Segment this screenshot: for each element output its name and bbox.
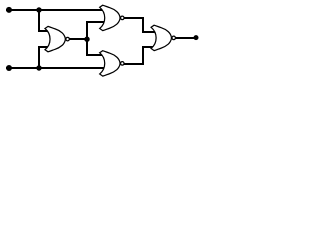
wire U1 lower input stub — [38, 46, 52, 48]
junction node B — [36, 65, 41, 70]
nor gate U4 (right) — [151, 25, 175, 50]
wire U4 output — [175, 37, 194, 39]
nor gate U1 (left) — [45, 26, 69, 51]
output terminal dot — [194, 35, 199, 40]
wire U4 upper input stub — [142, 31, 158, 33]
wire input B horizontal — [6, 67, 106, 69]
wire B branch vertical — [38, 47, 40, 68]
wire U4 lower input stub — [142, 46, 158, 48]
wire U1 output — [69, 38, 88, 40]
wire U2 lower input stub — [86, 21, 107, 23]
wire input A horizontal — [6, 9, 106, 11]
wire upper connector vertical — [142, 18, 144, 32]
wire mid vertical — [86, 22, 88, 55]
wire U3 upper input stub — [86, 54, 106, 56]
input terminal B dot — [6, 65, 12, 71]
nor gate U3 (bottom) — [100, 51, 124, 76]
junction node A — [36, 7, 41, 12]
wire U3 output — [124, 63, 144, 65]
input terminal A dot — [6, 7, 12, 13]
wire lower connector vertical — [142, 46, 144, 64]
wire U2 output — [124, 17, 144, 19]
nor gate U2 (top) — [100, 5, 124, 30]
wire U1 upper input stub — [38, 30, 52, 32]
junction node mid — [84, 37, 89, 42]
wire A branch vertical — [38, 10, 40, 31]
